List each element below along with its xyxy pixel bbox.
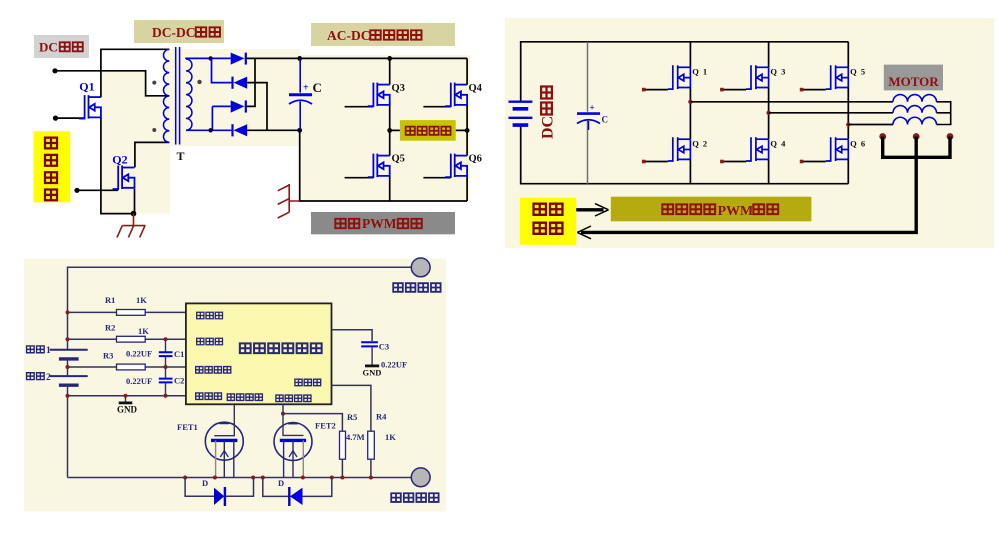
pin label 充电保护 (276, 395, 283, 401)
svg-text:D: D (278, 478, 284, 488)
node: AC output taps (390, 129, 467, 131)
svg-text:Q2: Q2 (112, 153, 127, 167)
resistor R4 1K (368, 431, 375, 459)
wire: inverter column B (466, 58, 468, 201)
svg-text:Q 3: Q 3 (770, 67, 786, 77)
wire: gate stub of Q 4 (722, 161, 746, 163)
wire: coil right ends to common (937, 102, 951, 125)
motor sense terminals (879, 133, 886, 140)
transistor Q6 (445, 154, 467, 178)
label "DC输入" vertical (540, 87, 557, 140)
node: phase tap (688, 100, 692, 104)
wire: secondary bottom to diode D4 (186, 129, 233, 131)
transistor Q5 (368, 154, 390, 178)
svg-text:GND: GND (117, 405, 138, 415)
wire: battery negative row (68, 395, 186, 397)
capacitor C (filter) (577, 112, 600, 115)
svg-text:Q 4: Q 4 (770, 138, 786, 148)
svg-text:0.22UF: 0.22UF (126, 349, 152, 359)
node: Q1 gate terminal (53, 116, 58, 121)
svg-text:PWM: PWM (362, 216, 397, 231)
schematic background (battery protection board) (24, 259, 446, 512)
transformer T secondary winding (186, 59, 192, 130)
wire: inverter column A (389, 58, 391, 201)
transistor Q2 (113, 166, 135, 190)
junction dots battery rows (66, 310, 70, 314)
wire: control to PWM box arrow (thick) (576, 208, 603, 211)
wire: motor feedback bus (thick) (883, 137, 950, 158)
capacitor C3 (361, 342, 378, 346)
terminal: output negative (411, 468, 430, 487)
label box "交流输出" (AC output) (400, 120, 456, 141)
junction: bottom rail / ground (131, 211, 137, 217)
transistor Q4 (445, 83, 467, 107)
wire: secondary top to diode D1 (186, 57, 231, 60)
ground (push-pull stage) (117, 214, 146, 238)
battery DC source (509, 102, 533, 125)
svg-text:Q1: Q1 (79, 80, 94, 94)
wire: R3 row (68, 366, 186, 368)
transistor FET1 (205, 422, 243, 460)
svg-text:C1: C1 (174, 349, 184, 359)
svg-text:+: + (303, 83, 309, 94)
wire: gate stub of Q 1 (644, 89, 668, 91)
transformer T primary winding (163, 49, 169, 142)
wire: Q6 gate stub (423, 177, 450, 179)
wire: output positive rail (68, 267, 412, 350)
svg-text:MOTOR: MOTOR (888, 74, 939, 89)
ground GND (C3) (365, 364, 379, 367)
transformer phase dots (152, 81, 156, 85)
pin label 放电保护 (227, 394, 234, 400)
wire: join rows 1-2 (212, 58, 233, 82)
label 输出负极 (391, 493, 401, 502)
diode D1 (rectifier, points right) (231, 53, 245, 65)
svg-text:+: + (590, 103, 595, 113)
arrow head: feedback into control center (577, 226, 591, 239)
svg-text:T: T (177, 149, 185, 163)
label box "控制中心" (control center) (520, 198, 577, 245)
transistor Q 4 (746, 137, 769, 161)
wire: bridge column x=848.3 (847, 42, 849, 184)
junction on secondary top (208, 56, 212, 60)
capacitor C (DC link) (299, 58, 301, 92)
motor winding coils (893, 95, 937, 102)
label box MOTOR (884, 65, 943, 91)
svg-text:Q5: Q5 (392, 153, 405, 164)
wire: Q2 source to bottom rail (134, 189, 136, 214)
schematic background (DC-DC converter area) (101, 49, 300, 146)
schematic background (3-phase inverter area) (505, 18, 994, 248)
svg-text:Q4: Q4 (469, 83, 483, 94)
wire: DC bus - to ground corner (247, 130, 467, 201)
svg-text:0.22UF: 0.22UF (126, 376, 152, 386)
svg-text:DC: DC (39, 40, 58, 55)
svg-text:AC-DC: AC-DC (327, 28, 371, 43)
transistor Q3 (368, 83, 390, 107)
svg-text:0.22UF: 0.22UF (381, 360, 407, 370)
wire: gate branch to R5 (283, 414, 342, 432)
svg-text:R1: R1 (105, 295, 115, 305)
wire: Q4 gate stub (423, 106, 450, 108)
resistor R5 4.7M (340, 431, 346, 459)
svg-text:DC: DC (540, 116, 557, 139)
wire: main vertical below Q1 to bottom rail (101, 117, 135, 213)
wire: bridge column x=690.4 (689, 42, 691, 184)
junction on secondary bottom (208, 128, 212, 132)
wire: gate stub of Q 3 (722, 89, 746, 91)
junction dots on buses (297, 56, 302, 61)
wire: capacitor branch (gray) (587, 42, 589, 184)
wire: battery stack verticals (67, 359, 69, 478)
node: DC input + terminal (52, 68, 57, 73)
svg-text:R5: R5 (347, 412, 357, 422)
resistor R1 1K (117, 310, 146, 316)
svg-text:FET2: FET2 (315, 421, 336, 431)
node: phase tap (846, 122, 850, 126)
svg-text:R2: R2 (105, 323, 115, 333)
svg-text:PWM: PWM (718, 204, 754, 219)
label box "全桥PWM控制" (311, 212, 455, 234)
label box "AC-DC全桥逆变" (311, 23, 455, 46)
svg-text:Q 2: Q 2 (692, 138, 708, 148)
svg-text:4.7M: 4.7M (346, 432, 365, 442)
diode D (charge) (263, 478, 290, 497)
pin label 电池正 (197, 338, 204, 344)
svg-text:1: 1 (46, 346, 51, 356)
transformer core (176, 47, 180, 145)
wire: D3 cathode up to + bus (247, 58, 256, 106)
transistor Q 5 (826, 65, 849, 89)
pin label 电源负 (295, 379, 302, 385)
svg-text:1K: 1K (138, 326, 149, 336)
transistor Q 3 (746, 65, 769, 89)
capacitor C1 (165, 339, 167, 367)
wire: bridge column x=768.6 (768, 42, 770, 184)
wire: gate stub of Q 5 (802, 89, 826, 91)
diode D3 (rectifier, points right) (231, 100, 245, 112)
resistor R2 1K (117, 336, 146, 342)
wire: outer rectangle of 3-phase bridge (521, 42, 849, 184)
svg-text:2: 2 (46, 373, 51, 383)
wire: phase line 3 (848, 124, 893, 126)
terminal: output positive (411, 258, 430, 277)
diode D2 (rectifier, points left) (234, 77, 248, 89)
wire: board to C3 (332, 330, 373, 341)
label box "推挽控制" (push-pull control) (34, 131, 71, 202)
transistor Q 1 (668, 65, 691, 89)
label 输出正极 (393, 283, 403, 292)
pin label 电池中点 (196, 367, 203, 373)
node: phase tap (766, 111, 770, 115)
transistor FET2 (274, 423, 312, 461)
wire: primary bottom to Q2 drain (135, 142, 169, 167)
svg-text:R4: R4 (376, 412, 387, 422)
wire: Q1 gate (56, 117, 85, 119)
svg-text:C3: C3 (379, 342, 389, 352)
diode D4 (rectifier, points left) (234, 124, 248, 136)
transistor Q 6 (826, 137, 849, 161)
svg-text:Q 1: Q 1 (692, 67, 708, 77)
resistor R3 (117, 364, 146, 370)
pin label 电池负 (196, 393, 203, 399)
wire: board 电源负 to R4 (332, 385, 371, 431)
wire: Q5 gate stub (345, 177, 374, 179)
pin label 电源正 (197, 312, 204, 318)
junction dots negative rail (183, 476, 187, 480)
svg-text:DC-DC: DC-DC (152, 25, 196, 40)
svg-text:Q6: Q6 (469, 153, 482, 164)
wire: DC input to primary center tap (55, 71, 169, 96)
label box "DC-DC升压" (134, 20, 224, 43)
wire: D2 anode down to - bus (247, 83, 267, 131)
svg-text:Q3: Q3 (392, 83, 405, 94)
svg-text:C: C (602, 115, 609, 125)
wire: top rail from Q1 column to transformer primary (101, 49, 169, 97)
label box "DC输入" (34, 35, 89, 58)
wire: gate stub of Q 2 (644, 161, 668, 163)
wire: Q3 gate stub (345, 106, 374, 108)
ground (inverter) (278, 184, 300, 218)
svg-text:Q 5: Q 5 (850, 67, 866, 77)
svg-text:1K: 1K (385, 432, 396, 442)
ground GND (battery) (125, 396, 127, 403)
label box "三相全桥PWM控制" (611, 197, 812, 222)
wire: DC bus + (top rail of inverter) (247, 57, 468, 59)
battery 电池1 (50, 350, 88, 376)
svg-text:FET1: FET1 (177, 422, 198, 432)
svg-text:Q 6: Q 6 (850, 138, 866, 148)
transistor Q1 (79, 95, 101, 119)
svg-text:R3: R3 (103, 351, 113, 361)
wire: R1 row (68, 311, 186, 313)
svg-text:C: C (313, 80, 322, 95)
transistor Q 2 (668, 137, 691, 161)
wire: phase line 1 (690, 101, 893, 103)
board title 充放电保护板 (240, 343, 251, 353)
wire: output negative rail (68, 477, 412, 479)
diode D (discharge) (185, 478, 214, 497)
capacitor C2 (165, 367, 167, 396)
svg-text:GND: GND (363, 368, 382, 378)
node: Q2 gate terminal (74, 188, 79, 193)
svg-text:D: D (202, 478, 208, 488)
svg-text:C2: C2 (174, 376, 184, 386)
wire: phase line 2 (769, 112, 893, 114)
wire: Q2 gate (77, 189, 118, 191)
protection board 充放电保护板 (186, 303, 332, 404)
wire: join rows 3-4 (212, 106, 230, 130)
wire: gate stub of Q 6 (802, 161, 826, 163)
battery 电池2 label (27, 373, 35, 380)
svg-text:1K: 1K (136, 295, 147, 305)
wire: R2 row (68, 338, 186, 340)
